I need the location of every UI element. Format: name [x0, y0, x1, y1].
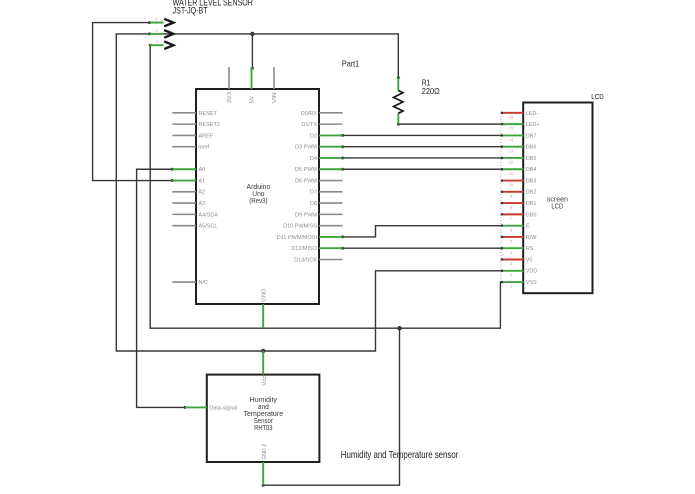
connector J1 pin 1 arrow — [150, 17, 174, 27]
wire D5 to DB4 — [343, 168, 501, 170]
Arduino pin RESET — [172, 111, 217, 117]
wire 5V branch to Arduino 5V pin — [251, 34, 253, 68]
wire sensor Data-signal to Arduino A0 — [137, 169, 185, 407]
LCD pin 1 VSS — [501, 280, 537, 289]
Arduino pin D11 PWM/MOSI — [277, 235, 343, 241]
Arduino pin D2 — [310, 133, 343, 139]
wire D4 to DB5 — [343, 157, 501, 159]
LCD pin 10 DB3 — [501, 178, 537, 187]
wire endpoint — [397, 123, 400, 126]
svg-text:VIN: VIN — [272, 92, 278, 103]
svg-text:R/W: R/W — [526, 235, 538, 241]
LCD pin 4 RS — [501, 246, 534, 255]
label water level sensor title — [173, 0, 254, 16]
svg-text:DB6: DB6 — [526, 145, 537, 151]
svg-text:DB5: DB5 — [526, 156, 537, 162]
svg-text:LED-: LED- — [526, 111, 539, 117]
wire D12 to LCD RS — [343, 247, 501, 249]
svg-text:A5/SCL: A5/SCL — [199, 224, 218, 230]
wire endpoint — [251, 67, 254, 70]
LCD pin 15 LED+ — [501, 122, 540, 131]
svg-text:D11 PWM/MOSI: D11 PWM/MOSI — [277, 235, 318, 241]
wire endpoint — [171, 168, 174, 171]
wire D11 to LCD E (jog) — [343, 226, 501, 237]
Arduino pin D5 PWM — [295, 167, 343, 173]
svg-text:DB4: DB4 — [526, 167, 537, 173]
wire 5V net: J1 pin2 left down to Vcc junction, over to LCD VDD — [116, 34, 501, 351]
svg-text:E: E — [526, 224, 530, 230]
label R1 value — [422, 78, 440, 96]
svg-text:DB2: DB2 — [526, 190, 537, 196]
svg-text:Data-signal: Data-signal — [209, 405, 237, 411]
LCD screen U2 body — [523, 103, 592, 294]
svg-text:D0/RX: D0/RX — [301, 111, 318, 117]
LCD pin 14 DB7 — [501, 133, 537, 142]
sensor pin GND 2 (ground) — [262, 444, 268, 485]
LCD pin 12 DB5 — [501, 156, 537, 165]
svg-text:10: 10 — [509, 182, 514, 187]
svg-text:N/C: N/C — [199, 280, 209, 286]
svg-text:Vcc: Vcc — [262, 376, 268, 386]
wire endpoint — [341, 145, 344, 148]
wire endpoint — [341, 134, 344, 137]
svg-text:LED+: LED+ — [526, 122, 540, 128]
svg-text:AREF: AREF — [199, 133, 214, 139]
wire endpoint — [148, 32, 151, 35]
svg-text:RESET2: RESET2 — [199, 122, 220, 128]
Arduino pin 3V3 — [227, 67, 233, 103]
Arduino pin D4 — [310, 156, 343, 162]
Arduino pin D9 PWM — [295, 212, 343, 218]
Arduino pin VIN — [272, 67, 278, 103]
LCD pin 2 VDD — [501, 269, 538, 278]
svg-text:12: 12 — [509, 160, 514, 165]
LCD pin 11 DB4 — [501, 167, 537, 176]
sensor RHT03 U3 body — [207, 375, 320, 462]
Arduino pin D13/SCK — [294, 257, 342, 263]
svg-text:D8: D8 — [310, 201, 317, 207]
svg-text:3V3: 3V3 — [227, 92, 233, 104]
svg-text:RESET: RESET — [199, 111, 218, 117]
LCD pin 8 DB1 — [501, 201, 537, 210]
wire GND net: J1 pin3 down, across to LCD VSS — [150, 45, 501, 328]
LCD pin 13 DB6 — [501, 145, 537, 154]
Arduino pin D0/RX — [301, 111, 343, 117]
connector J1 pin 3 arrow — [150, 39, 174, 49]
Arduino pin A5/SCL — [172, 224, 217, 230]
svg-text:D10 PWM/SS: D10 PWM/SS — [283, 224, 317, 230]
svg-text:GND: GND — [262, 289, 268, 302]
svg-text:DB0: DB0 — [526, 212, 537, 218]
wire GND branch to sensor GND2 — [263, 328, 399, 485]
svg-text:D13/SCK: D13/SCK — [294, 257, 317, 263]
svg-text:A1: A1 — [199, 178, 206, 184]
LCD pin 3 V0 — [501, 257, 533, 266]
LCD pin 16 LED- — [501, 111, 539, 120]
svg-text:Part1: Part1 — [342, 59, 360, 68]
svg-text:LCD: LCD — [591, 92, 604, 101]
svg-text:DB1: DB1 — [526, 201, 537, 207]
sensor pin Data-signal — [185, 405, 237, 411]
LCD pin ratsnest dotted line — [500, 113, 502, 282]
label Arduino Uno (Rev3) — [247, 182, 271, 205]
LCD pin 7 DB0 — [501, 212, 537, 221]
op Arduino Uno U1 body — [196, 89, 319, 304]
Arduino pin D6 PWM — [295, 178, 343, 184]
wire endpoint — [148, 21, 151, 24]
svg-text:D4: D4 — [310, 156, 317, 162]
svg-text:A4/SDA: A4/SDA — [199, 212, 219, 218]
svg-text:D3 PWM: D3 PWM — [295, 145, 317, 151]
junction 5V at sensor Vcc — [261, 349, 265, 353]
svg-text:D5 PWM: D5 PWM — [295, 167, 317, 173]
Arduino pin A3 — [172, 201, 205, 207]
Arduino pin D3 PWM — [295, 145, 343, 151]
svg-text:15: 15 — [509, 126, 514, 131]
svg-text:D9 PWM: D9 PWM — [295, 212, 317, 218]
svg-text:Humidity and Temperature senso: Humidity and Temperature sensor — [341, 450, 459, 461]
wire endpoint — [341, 156, 344, 159]
svg-text:16: 16 — [509, 114, 514, 119]
wire endpoint — [341, 235, 344, 238]
LCD pin 5 R/W — [501, 235, 537, 244]
svg-text:V0: V0 — [526, 257, 533, 263]
Arduino pin A4/SDA — [172, 212, 218, 218]
svg-text:VSS: VSS — [526, 280, 537, 286]
svg-text:5V: 5V — [250, 96, 256, 104]
svg-text:D7: D7 — [310, 190, 317, 196]
Arduino pin RESET2 — [172, 122, 220, 128]
svg-text:ioref: ioref — [199, 145, 210, 151]
svg-text:A0: A0 — [199, 167, 206, 173]
svg-text:VDD: VDD — [526, 269, 538, 275]
LCD pin 6 E — [501, 224, 530, 233]
svg-text:220Ω: 220Ω — [422, 87, 440, 96]
svg-text:RHT03: RHT03 — [254, 423, 272, 432]
wire endpoint — [149, 44, 152, 47]
wire endpoint — [184, 406, 187, 409]
label Humidity and Temperature Sensor RHT03 — [243, 395, 283, 432]
svg-text:(Rev3): (Rev3) — [249, 196, 267, 205]
junction GND at x400 — [397, 326, 401, 330]
wire D2 to DB7 — [343, 134, 501, 136]
wire endpoint — [397, 76, 400, 79]
Arduino pin A2 — [172, 190, 205, 196]
sensor pin Vcc — [262, 351, 268, 386]
svg-text:D2: D2 — [310, 133, 317, 139]
svg-text:D6 PWM: D6 PWM — [295, 178, 317, 184]
junction 5V at Arduino drop — [250, 32, 254, 36]
Arduino pin D10 PWM/SS — [283, 224, 342, 230]
svg-text:DB7: DB7 — [526, 133, 537, 139]
Arduino pin D8 — [310, 201, 343, 207]
label screen LCD — [547, 194, 568, 210]
svg-text:GND 2: GND 2 — [262, 444, 268, 460]
svg-text:D12/MISO: D12/MISO — [291, 246, 317, 252]
wire endpoint — [341, 168, 344, 171]
svg-text:RS: RS — [526, 246, 534, 252]
wire D3 to DB6 — [343, 146, 501, 148]
Arduino pin AREF — [172, 133, 214, 139]
Arduino pin A0 — [172, 167, 205, 173]
Arduino pin GND (ground) — [262, 289, 268, 329]
wire endpoint — [171, 179, 174, 182]
Arduino pin D12/MISO — [291, 246, 342, 252]
svg-text:14: 14 — [509, 137, 514, 142]
Arduino pin 5V — [250, 67, 256, 103]
svg-text:A2: A2 — [199, 190, 206, 196]
wire J1 pin1 to Arduino A1 — [93, 23, 173, 181]
LCD pin 9 DB2 — [501, 190, 537, 199]
svg-text:DB3: DB3 — [526, 178, 537, 184]
wire endpoint — [341, 247, 344, 250]
Arduino pin N/C — [172, 280, 208, 286]
Arduino pin A1 — [172, 178, 205, 184]
Arduino pin D1/TX — [301, 122, 342, 128]
Arduino pin D7 — [310, 190, 343, 196]
svg-text:D1/TX: D1/TX — [301, 122, 317, 128]
resistor R1 — [394, 78, 403, 124]
svg-text:A3: A3 — [199, 201, 206, 207]
wire R1 bottom to LCD LED+ — [398, 123, 501, 125]
svg-text:LCD: LCD — [551, 201, 563, 210]
Arduino pin ioref — [172, 145, 209, 151]
connector J1 pin 2 arrow — [150, 28, 174, 38]
svg-text:13: 13 — [509, 148, 514, 153]
wire endpoint — [262, 484, 265, 487]
svg-text:JST-JQ-BT: JST-JQ-BT — [173, 6, 208, 16]
